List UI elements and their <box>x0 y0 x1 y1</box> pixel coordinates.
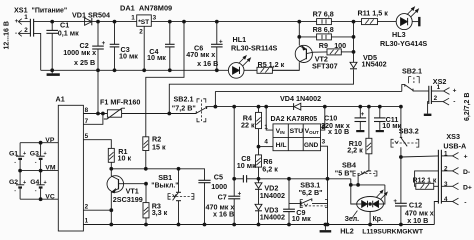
pin 3 label DA2 <box>322 138 326 145</box>
junction R2 feed on top rail <box>183 20 186 23</box>
regulator DA1 box <box>137 15 152 26</box>
junction H/L tap <box>257 145 260 148</box>
value C3 10 мк <box>119 52 138 61</box>
transistor VT1 <box>107 176 125 193</box>
plus mark C2 <box>102 40 106 47</box>
wire VD4 line <box>215 106 401 108</box>
junction pin7 riser <box>102 112 105 115</box>
junction C11 top <box>378 105 381 108</box>
label R3 <box>152 202 161 211</box>
plus mark G3 <box>44 151 47 157</box>
label VD2 <box>264 184 278 193</box>
svg-text:C7: C7 <box>218 192 227 201</box>
connector XS3 body <box>438 150 441 204</box>
junction R10 top <box>368 105 371 108</box>
pin 3 XS3 <box>441 183 458 190</box>
svg-text:1N4002: 1N4002 <box>260 212 285 221</box>
resistor R11 <box>362 19 378 25</box>
wire VT1 base to R3 <box>125 184 147 203</box>
plus mark C10 <box>361 111 365 118</box>
junction pin3 chain rail <box>326 223 329 226</box>
label C10 <box>324 113 337 122</box>
svg-text:Кр.: Кр. <box>373 216 383 223</box>
regulator DA2 box <box>273 124 321 151</box>
minus mark G2 <box>14 188 16 194</box>
svg-text:10 к: 10 к <box>118 154 132 163</box>
junction C3 top <box>113 20 116 23</box>
wire plus node to XS3 pin1 <box>401 156 439 157</box>
label C11 <box>386 115 399 124</box>
svg-text:VP: VP <box>45 137 55 144</box>
junction R4 top <box>257 105 260 108</box>
svg-text:VM: VM <box>45 165 56 172</box>
value C8 10 мк <box>237 161 256 170</box>
label R2 <box>152 134 161 143</box>
capacitor C11 <box>374 107 386 132</box>
svg-text:1000 мк х: 1000 мк х <box>63 48 96 57</box>
label GND <box>304 142 319 149</box>
junction bus R7 <box>352 20 355 23</box>
junction SB1 rail <box>177 223 180 226</box>
label VOUT <box>305 128 319 135</box>
svg-text:1N5402: 1N5402 <box>362 60 387 69</box>
junction C2 top <box>97 20 100 23</box>
junction C6 bottom <box>215 69 218 72</box>
svg-text:"Питание": "Питание" <box>32 7 68 14</box>
label R11 1,5 к <box>358 8 389 17</box>
capacitor C2 electrolytic <box>92 22 104 71</box>
junction C9 rail <box>288 223 291 226</box>
diode VD5 <box>350 62 357 69</box>
pin 2 XS3 <box>441 168 458 175</box>
wire A1 pin8 F1 line <box>83 113 196 115</box>
svg-text:2: 2 <box>444 165 448 172</box>
junction VT2 emitter node <box>298 36 301 39</box>
pin 1 label DA1 <box>131 14 135 21</box>
value 15 к <box>152 143 166 152</box>
battery G3 <box>37 143 45 171</box>
value C9 10 мк <box>292 214 311 223</box>
label R1 <box>118 147 127 156</box>
label USB-A <box>443 141 466 150</box>
svg-text:0,1 мк: 0,1 мк <box>58 29 79 38</box>
svg-text:3: 3 <box>444 181 448 188</box>
svg-text:"7,2 В": "7,2 В" <box>172 103 196 112</box>
svg-text:L119SURKMGKWT: L119SURKMGKWT <box>362 228 424 235</box>
wire riser to XS2 line <box>214 91 216 106</box>
svg-text:6,2 к: 6,2 к <box>262 165 278 174</box>
svg-text:2SC3199: 2SC3199 <box>113 195 143 204</box>
junction C7 rail <box>233 223 236 226</box>
svg-text:2,2 к: 2,2 к <box>347 146 363 155</box>
pin 1 label <box>24 14 28 21</box>
svg-text:+: + <box>219 38 223 45</box>
label D+ XS3 <box>463 185 472 192</box>
svg-text:R11 1,5 к: R11 1,5 к <box>358 8 389 17</box>
junction R2 collector node <box>144 167 147 170</box>
label XS2 <box>433 77 447 86</box>
label VD4 1N4002 <box>280 94 321 103</box>
wire plus node to C12 <box>400 157 402 203</box>
junction C9 top <box>288 177 291 180</box>
label C6 <box>194 44 203 53</box>
svg-text:3: 3 <box>322 138 326 145</box>
svg-text:SB1: SB1 <box>158 173 172 182</box>
minus mark G4 <box>35 188 37 194</box>
junction SB4 stub <box>349 184 352 187</box>
label C8 <box>241 154 250 163</box>
svg-text:1000: 1000 <box>211 182 227 191</box>
junction C10 top <box>359 105 362 108</box>
resistor R10 <box>366 107 372 154</box>
pin 2 label <box>24 27 28 34</box>
connector XS2 body <box>429 86 432 104</box>
label SB2.1 middle <box>174 95 194 104</box>
svg-text:100: 100 <box>334 41 346 50</box>
junction HL2 rail <box>369 223 372 226</box>
wire switch output to VD4 line <box>206 106 216 108</box>
wire collector node to C5 <box>111 169 204 181</box>
diode VD3 <box>255 204 262 224</box>
junction F1 wire at x169 <box>168 112 171 115</box>
switch SB3.2 <box>391 137 419 157</box>
ground symbol bottom <box>320 225 332 232</box>
svg-text:1: 1 <box>131 14 135 21</box>
value 3,3 к <box>152 208 168 217</box>
svg-text:22 к: 22 к <box>241 121 255 130</box>
label HL3 <box>392 30 406 39</box>
svg-text:-: - <box>35 160 37 166</box>
label SB1 <box>158 173 172 182</box>
svg-text:+: + <box>44 180 47 186</box>
svg-text:-: - <box>453 98 455 105</box>
switch SB2.1 top <box>402 77 429 92</box>
label 2SC3199 <box>113 195 143 204</box>
label "6,2 В" <box>299 188 323 197</box>
label SFT307 <box>312 62 338 71</box>
wire bottom rail <box>83 224 434 226</box>
svg-text:1: 1 <box>85 218 89 225</box>
minus mark XS2 <box>453 98 455 105</box>
label C3 <box>121 45 130 54</box>
pin 1 XS2 <box>431 88 449 95</box>
svg-text:VD1 SR504: VD1 SR504 <box>72 11 110 20</box>
switch SB1 <box>168 169 194 225</box>
label XS3 <box>446 132 460 141</box>
svg-text:DA2 KA78R05: DA2 KA78R05 <box>271 116 318 123</box>
label 6,2/7,2 В vertical <box>464 93 471 121</box>
junction bus R8 <box>352 36 355 39</box>
wire C8 line to HL2 left <box>351 179 357 204</box>
pin 2 of XS1 <box>18 31 30 37</box>
resistor R2 <box>143 137 149 151</box>
resistor R9 <box>327 49 341 55</box>
junction C7 top <box>233 105 236 108</box>
resistor R4 <box>256 107 262 129</box>
wire VD5 to switch area <box>169 70 353 114</box>
wire R1 to VT1 collector <box>110 162 112 176</box>
wire A1 pin7 <box>83 114 103 125</box>
battery G2 <box>16 171 24 200</box>
plus mark G4 <box>44 180 47 186</box>
pin 2 lead DA1 to ground <box>143 26 145 70</box>
label RL30-YG414S <box>380 39 427 48</box>
pin 4 XS3 <box>441 198 458 205</box>
svg-text:4: 4 <box>264 139 268 146</box>
label R9 <box>319 41 328 50</box>
wire C8 line <box>234 178 351 180</box>
pin 2 label DA1 <box>139 28 143 35</box>
label R12 1 к <box>413 178 437 185</box>
svg-text:-: - <box>464 199 466 206</box>
pin 2 label XS3 <box>444 165 448 172</box>
svg-text:DA1 AN78M09: DA1 AN78M09 <box>120 3 172 12</box>
svg-text:1: 1 <box>444 150 448 157</box>
label VT2 <box>315 55 328 64</box>
capacitor C8 <box>243 175 246 182</box>
plus mark C12 <box>393 198 397 205</box>
label C12 <box>409 200 422 209</box>
label C9 <box>296 208 305 217</box>
common bar at HL3 <box>418 17 420 26</box>
label 1N5402 <box>362 60 387 69</box>
plus mark XS2 <box>453 88 457 95</box>
value 1000 мк x <box>63 48 96 57</box>
svg-text:-: - <box>35 188 37 194</box>
value 1000 <box>211 182 227 191</box>
svg-text:GND: GND <box>304 142 319 149</box>
LED HL3 <box>396 7 418 29</box>
junction emitter pin2 <box>110 209 113 212</box>
svg-text:+: + <box>393 198 397 205</box>
wire R12 right to pin3 <box>434 185 439 187</box>
value 0,1 мк <box>58 29 79 38</box>
value 220 мк x <box>321 121 350 130</box>
svg-text:*ST: *ST <box>138 19 149 26</box>
label 12...16 В vertical <box>4 21 11 49</box>
junction C1 top <box>51 20 54 23</box>
svg-text:+: + <box>44 151 47 157</box>
svg-text:G1: G1 <box>9 151 18 158</box>
junction VM G1 <box>19 169 22 172</box>
wire XS1 pin2 to ground rail <box>34 33 41 70</box>
svg-text:+: + <box>464 154 468 161</box>
svg-text:R12 1 к: R12 1 к <box>413 178 437 185</box>
junction SB1 top <box>177 167 180 170</box>
minus mark XS1 <box>15 30 17 37</box>
label H/L <box>276 142 287 149</box>
label A1 <box>56 95 65 104</box>
label VM <box>45 165 56 172</box>
label VD3 <box>264 205 278 214</box>
LED HL1 <box>228 56 250 78</box>
wire VC <box>20 198 58 200</box>
svg-text:+: + <box>361 111 365 118</box>
pin 1 label XS2 <box>437 84 441 91</box>
wire DA2 pin4 <box>259 146 274 148</box>
label Зел. <box>345 216 360 223</box>
label R10 <box>349 139 362 148</box>
wire R2 to collector node <box>145 151 147 169</box>
label C2 <box>80 41 89 50</box>
svg-text:A1: A1 <box>56 95 65 104</box>
resistor R8 <box>317 34 332 40</box>
switch SB3.1 <box>289 199 328 208</box>
svg-text:12...16 В: 12...16 В <box>4 21 11 49</box>
wire VT2 emitter to rail node <box>298 22 300 46</box>
value C4 10 мк <box>147 53 166 62</box>
pin 8 label <box>85 107 89 114</box>
wire R3 to rail <box>145 218 147 225</box>
svg-text:D-: D- <box>463 169 470 176</box>
svg-text:XS1: XS1 <box>14 5 28 14</box>
battery G4 <box>37 171 45 200</box>
wire output line to XS2 switch <box>215 90 401 92</box>
value 100 <box>334 41 346 50</box>
pin 2 XS2 <box>431 98 449 105</box>
svg-text:+: + <box>238 190 242 197</box>
svg-text:"5 В": "5 В" <box>335 169 353 178</box>
resistor R6 <box>256 155 262 167</box>
label RL30-SR114S <box>231 43 278 52</box>
svg-text:G2: G2 <box>9 179 18 186</box>
junction C4 bottom <box>168 69 171 72</box>
svg-text:"Выкл.": "Выкл." <box>151 183 178 190</box>
value 470 мк x <box>405 208 434 217</box>
junction pin1 VD4 line <box>265 105 268 108</box>
wire VT2 base to R9 <box>314 51 328 53</box>
label G3 <box>30 151 39 158</box>
value 10 к <box>118 154 132 163</box>
svg-text:G3: G3 <box>30 151 39 158</box>
pin 1 label <box>85 218 89 225</box>
svg-text:SB3.2: SB3.2 <box>399 127 419 136</box>
resistor R1 <box>108 148 114 162</box>
value 2,2 к <box>347 146 363 155</box>
junction ground bottom <box>324 223 327 226</box>
label Кр. <box>373 216 383 223</box>
junction pin3 chain at C8 line <box>326 177 329 180</box>
svg-text:1N4002: 1N4002 <box>260 191 285 200</box>
resistor R5 <box>257 67 272 73</box>
capacitor C7 electrolytic <box>228 107 240 225</box>
svg-text:8: 8 <box>85 107 89 114</box>
capacitor C10 electrolytic <box>355 107 367 132</box>
svg-text:F1 MF-R160: F1 MF-R160 <box>100 98 140 107</box>
label R6 <box>263 157 272 166</box>
svg-text:SB2.1: SB2.1 <box>402 67 422 76</box>
plus mark G2 <box>23 180 26 186</box>
wire DA2 pin2 <box>321 107 325 131</box>
label C5 <box>214 173 223 182</box>
svg-text:"6,2 В": "6,2 В" <box>299 188 323 197</box>
junction emitter rail <box>110 223 113 226</box>
wire R9 to bus <box>341 51 353 53</box>
svg-text:+: + <box>23 151 26 157</box>
label STU <box>290 128 304 135</box>
svg-text:G4: G4 <box>30 179 39 186</box>
svg-text:х 10 В: х 10 В <box>328 127 349 136</box>
svg-text:470 мк х: 470 мк х <box>186 50 215 59</box>
plus mark C6 <box>219 38 223 45</box>
pin 5 label <box>85 133 89 140</box>
label VC <box>45 193 55 200</box>
wire VT1 emitter down <box>110 192 112 224</box>
label VD5 <box>363 53 377 62</box>
junction SB4 left stub <box>357 184 360 187</box>
label G2 <box>9 179 18 186</box>
wire VP <box>20 142 58 144</box>
pin 4 label DA2 <box>264 139 268 146</box>
label SB3.2 <box>399 127 419 136</box>
wire DA2 pin3 gnd chain <box>321 146 328 224</box>
pin 2 label <box>85 204 89 211</box>
label C7 <box>218 192 227 201</box>
junction VP G3 <box>39 141 42 144</box>
junction SB3.2 riser VD4 line <box>400 105 403 108</box>
svg-text:-: - <box>14 160 16 166</box>
svg-text:XS3: XS3 <box>446 132 460 141</box>
junction C5 rail <box>203 223 206 226</box>
junction C8 line left <box>233 177 236 180</box>
pointer Зел. <box>352 211 358 219</box>
svg-text:10 мк: 10 мк <box>119 52 138 61</box>
svg-text:HL3: HL3 <box>392 30 406 39</box>
pin 4 label XS3 <box>444 196 448 203</box>
junction R3 rail <box>145 223 148 226</box>
value x 16 В <box>197 59 218 68</box>
capacitor C1 <box>46 22 58 71</box>
label C4 <box>149 47 158 56</box>
module A1 box <box>58 105 83 231</box>
ground bar XS2 <box>424 114 432 116</box>
switch SB4 <box>353 154 377 185</box>
svg-text:-: - <box>14 188 16 194</box>
label "Выкл." <box>151 183 178 190</box>
resistor R12 <box>416 183 434 189</box>
minus mark G3 <box>35 160 37 166</box>
label XS1 <box>14 5 28 14</box>
label R8 6,8 <box>313 25 334 34</box>
capacitor C4 <box>165 22 175 71</box>
svg-text:3: 3 <box>153 14 157 21</box>
junction C4 top <box>168 20 171 23</box>
svg-text:VD4 1N4002: VD4 1N4002 <box>280 94 321 103</box>
svg-text:10 мк: 10 мк <box>237 161 256 170</box>
junction base node <box>145 182 148 185</box>
label VD3 1N4002 <box>260 212 285 221</box>
label "7,2 В" <box>172 103 196 112</box>
wire A1 pin2 <box>83 209 111 211</box>
pin 3 label DA1 <box>153 14 157 21</box>
svg-text:1: 1 <box>437 84 441 91</box>
label "5 В" <box>335 169 353 178</box>
junction C2 bottom <box>97 69 100 72</box>
label G4 <box>30 179 39 186</box>
label L119SURKMGKWT <box>362 228 424 235</box>
svg-text:Зел.: Зел. <box>345 216 360 223</box>
label VP <box>45 137 55 144</box>
label R7 6,8 <box>313 9 334 18</box>
transistor VT2 <box>295 45 313 62</box>
svg-text:R9: R9 <box>319 41 328 50</box>
svg-text:2: 2 <box>434 95 438 102</box>
pin 3 label XS3 <box>444 181 448 188</box>
wire HL2 cathode <box>369 212 371 225</box>
label HL2 <box>340 226 354 235</box>
svg-text:STU: STU <box>290 128 304 135</box>
value 6,2 к <box>262 165 278 174</box>
